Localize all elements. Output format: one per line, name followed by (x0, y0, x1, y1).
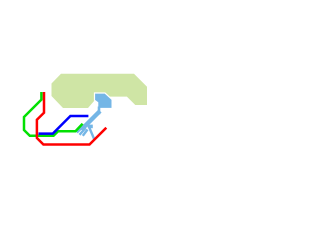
river east hook (88, 125, 93, 129)
lake (95, 93, 113, 109)
green line (24, 92, 83, 136)
river delta finger 2 (80, 128, 86, 135)
park polygon (52, 74, 148, 108)
river delta finger 3 (83, 130, 88, 136)
red line (37, 92, 106, 145)
river delta finger 1 (77, 127, 83, 133)
river main band (81, 111, 100, 130)
river south branch (88, 125, 94, 139)
blue line (39, 116, 89, 134)
lake outflow tail (98, 107, 101, 115)
